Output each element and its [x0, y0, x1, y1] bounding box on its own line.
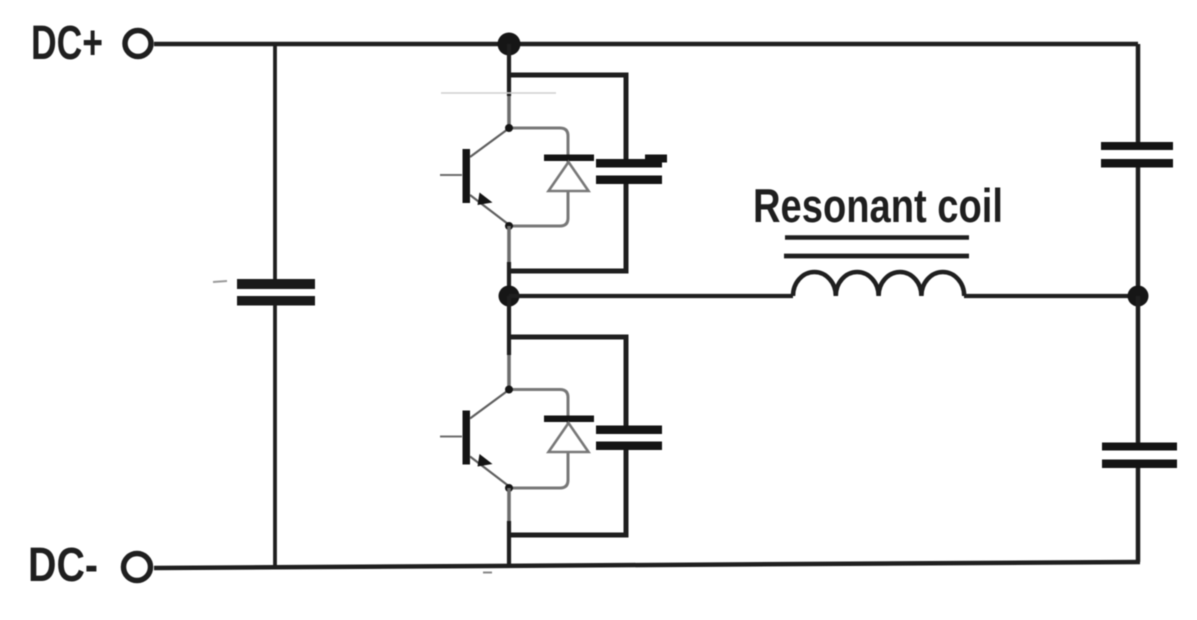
wire upper gray diode loop	[511, 128, 568, 226]
wire midpoint to coil	[509, 294, 793, 298]
wire bottom DC- rail	[154, 562, 1140, 568]
wire underline 1	[785, 235, 969, 240]
wire main vertical: top dot to upper IGBT collector	[507, 44, 511, 96]
wire coil to right rail	[964, 294, 1138, 298]
transistor Q1 collector diagonal	[470, 129, 508, 157]
transistor Q1 gate lead	[440, 174, 462, 176]
node upper emitter dot	[505, 222, 513, 230]
node DC- terminal circle	[124, 554, 151, 581]
node J1 top junction dot	[498, 33, 521, 56]
svg-text:DC-: DC-	[28, 539, 98, 592]
transistor Q1 upper IGBT gate bar	[463, 149, 471, 203]
wire lower emitter to bottom rail	[507, 488, 511, 521]
transistor Q2 emitter arrow	[478, 454, 493, 467]
transistor Q2 collector diagonal	[470, 391, 508, 419]
transistor Q1 emitter arrow	[478, 193, 493, 206]
wire lower gray diode loop	[511, 390, 568, 489]
diode D1 triangle	[549, 162, 589, 191]
wire faint artifact line	[441, 92, 556, 94]
wire emitter to midpoint	[507, 226, 511, 262]
capacitor C3 (lower snubber)	[596, 426, 662, 451]
wire left branch lower segment	[273, 305, 277, 567]
diode D2 triangle	[549, 423, 589, 452]
wire left branch upper segment	[273, 44, 277, 280]
wire midpoint to lower IGBT collector	[507, 296, 511, 355]
transistor Q1 emitter diagonal	[470, 195, 508, 224]
capacitor C1 (DC link)	[237, 279, 315, 306]
wire right rail upper segment	[1136, 44, 1141, 143]
wire lower snubber loop	[511, 337, 626, 535]
wire upper snubber loop (top branch, right side, bottom branch)	[511, 75, 626, 271]
wire right rail middle segment	[1136, 168, 1141, 297]
capacitor C4 (upper resonant cap)	[1101, 142, 1173, 168]
transistor Q2 emitter diagonal	[470, 457, 508, 486]
wire right rail segment to lower cap	[1136, 296, 1141, 443]
node lower emitter dot	[505, 484, 513, 492]
svg-text:DC+: DC+	[31, 17, 103, 70]
node DC+ terminal circle	[125, 31, 151, 57]
svg-text:Resonant coil: Resonant coil	[753, 179, 1003, 232]
capacitor C2 (upper snubber)	[596, 155, 667, 185]
wire faint dash artifact below bottom rail	[483, 572, 492, 574]
capacitor C5 (lower resonant cap)	[1102, 443, 1177, 469]
transistor Q2 gate lead	[440, 436, 462, 438]
wire faint dash artifact left of C1	[213, 281, 227, 282]
transistor Q2 lower IGBT gate bar	[463, 411, 471, 465]
node midpoint junction dot	[499, 286, 520, 307]
diode D2 cathode bar	[544, 416, 594, 423]
wire underline 2	[784, 254, 969, 259]
node lower collector dot	[505, 386, 513, 394]
wire right rail lower segment	[1136, 468, 1141, 562]
inductor L1 resonant coil	[793, 272, 964, 296]
node right junction dot	[1128, 286, 1149, 307]
wire top DC+ rail	[154, 42, 1138, 47]
diode D1 cathode bar	[544, 155, 594, 162]
node upper collector dot	[505, 124, 513, 132]
